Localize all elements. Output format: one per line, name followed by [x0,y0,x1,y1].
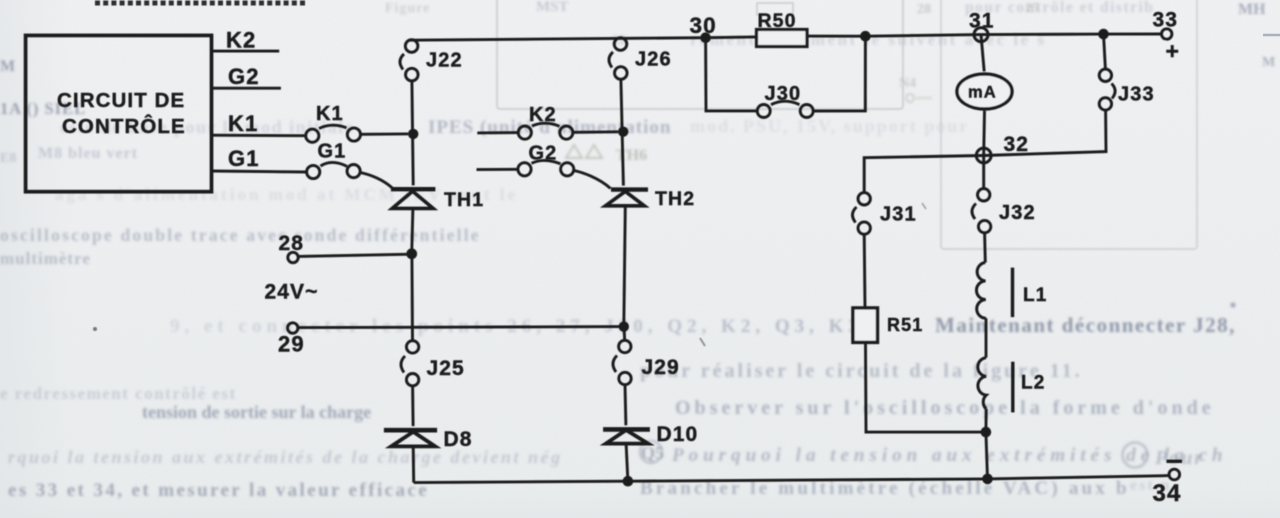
jumper J22 [400,40,418,81]
jumper J33 [1099,69,1115,110]
meter mA [957,74,1012,109]
svg-text:G1: G1 [318,141,347,163]
wire K1 row from box [212,134,306,137]
gate wire G2 to TH2 [574,171,611,189]
jumper J29 [613,340,631,384]
svg-text:J32: J32 [999,202,1036,224]
svg-text:mod. PSU, 15V, support pour: mod. PSU, 15V, support pour [690,116,969,136]
top rail right [807,34,1162,36]
svg-text:G2: G2 [228,64,260,89]
wire mA to 32 [982,111,986,156]
wire L2 down [986,409,988,479]
svg-text:33: 33 [1153,9,1179,32]
junction D10-bottom rail [623,476,634,487]
wire J32 to L1 [983,233,987,263]
junction R51-L2 [981,427,992,438]
svg-text:M: M [1262,55,1275,70]
diode D8 [384,430,437,446]
junction R50 right [860,31,871,42]
svg-text:G1: G1 [228,146,260,171]
junction L2-bottom rail [982,474,993,485]
jumper J30 [757,101,813,117]
svg-text:oscilloscope double trace avec: oscilloscope double trace avec sonde dif… [0,225,481,245]
svg-text:K1: K1 [316,103,344,125]
svg-text:J30: J30 [765,83,802,105]
wire J29 to D10 [624,385,628,426]
wire K2 row [477,131,518,134]
svg-text:28: 28 [279,232,305,255]
svg-text:J22: J22 [426,50,463,72]
junction K2-TH2 [618,127,628,137]
svg-text:J29: J29 [642,356,680,379]
wire D10 to bottom rail [626,444,628,482]
svg-text:CONTRÔLE: CONTRÔLE [62,114,186,138]
svg-text:MH: MH [1238,1,1266,18]
svg-text:rquoi la tension aux extrémité: rquoi la tension aux extrémités de la ch… [8,447,563,467]
svg-text:L2: L2 [1021,373,1045,394]
svg-text:J31: J31 [880,204,917,226]
scan speck above L2 [922,203,926,209]
svg-text:L1: L1 [1023,285,1047,306]
wire J25 to D8 [411,386,414,426]
svg-text:D8: D8 [444,428,473,451]
wire K2 to node [573,130,618,133]
jumper J31 [852,193,870,235]
bottom rail [414,476,1169,483]
svg-text:+: + [1166,38,1181,64]
wire J30 loop [706,38,758,111]
svg-text:24V~: 24V~ [265,281,319,304]
thyristor TH1 [391,189,435,208]
svg-text:Observer sur l'oscilloscope la: Observer sur l'oscilloscope la forme d'o… [675,397,1215,419]
wire R51 down and right [866,342,988,432]
wire J26 down to K2 node [621,79,624,185]
svg-text:MST: MST [536,0,569,15]
jumper J25 [401,341,419,386]
svg-text:K1: K1 [228,111,258,136]
svg-text:R51: R51 [887,315,923,335]
node 31 [974,28,988,42]
junction K1-TH1 [408,129,418,139]
svg-text:M: M [0,58,15,75]
switch K1 [306,125,361,142]
top rail left [409,37,757,40]
terminal 29 [288,323,298,333]
svg-text:31: 31 [969,10,995,33]
faint bleed rect A [497,0,903,109]
inductor L1 [976,263,1012,319]
terminal 34 [1169,469,1180,480]
terminal stub G2 [212,87,281,90]
faint bleed rect B [941,0,1197,249]
control box U1 CIRCUIT DE CONTROLE [26,35,212,191]
wire to J29 [622,327,626,341]
minus sign at 34 [1167,460,1183,463]
svg-text:CIRCUIT DE: CIRCUIT DE [57,89,185,112]
switch K2 [518,123,573,139]
svg-text:pour réaliser le circuit de la: pour réaliser le circuit de la figure 11… [640,360,1083,382]
wire L1 to L2 [985,318,988,358]
wire 32 right branch [984,110,1106,155]
junction node 28 [406,248,417,259]
wire 31 to mA [981,35,984,72]
junction node 30 [700,32,711,43]
svg-text:J26: J26 [635,49,672,71]
inductor L2 [978,358,1013,413]
wire TH2 to 29 junction [624,206,626,327]
svg-text:N4: N4 [899,76,916,91]
jumper J32 [972,189,991,233]
junction 29-TH2 [619,321,629,331]
terminal stub K2 [212,50,280,53]
terminal 33 [1162,29,1172,39]
gate wire G1 to TH1 [360,173,392,189]
svg-text:K2: K2 [529,104,557,126]
node 32 [976,148,991,163]
thyristor TH2 [606,190,649,206]
svg-text:34: 34 [1153,480,1182,507]
svg-text:mA: mA [968,84,997,102]
svg-text:J33: J33 [1118,84,1155,106]
faint bleed notch top center [757,3,793,16]
svg-text:Pourquoi la tension aux extrém: Pourquoi la tension aux extrémités de la… [671,445,1227,466]
svg-text:TH2: TH2 [655,188,695,210]
svg-text:30: 30 [690,13,717,38]
ghost text top row [0,0,1275,268]
terminal 28 [288,252,298,262]
wire J32 column [982,156,985,189]
junction J33-rail [1098,29,1109,40]
svg-text:e redressement contrôlé est: e redressement contrôlé est [0,384,237,403]
svg-text:multimètre: multimètre [0,249,91,268]
svg-text:TH6: TH6 [616,147,647,164]
wire 29 [298,327,624,328]
wire J31 to R51 [863,234,867,308]
svg-text:28: 28 [917,2,931,17]
svg-text:R50: R50 [758,10,797,32]
svg-text:G2: G2 [529,143,558,165]
wire 28 [298,254,406,256]
wire D8 to bottom rail [412,446,415,482]
diode D10 [603,429,650,443]
dotted cut-off text line top-left [95,1,305,6]
svg-text:Figure: Figure [385,1,430,16]
resistor R51 [853,308,878,343]
ghost redressement line [0,1,430,403]
wire G1 row from box [212,171,307,172]
svg-text:es 33 et 34, et mesurer la val: es 33 et 34, et mesurer la valeur effica… [8,480,429,501]
svg-text:TH1: TH1 [444,189,484,211]
svg-text:E8: E8 [0,151,16,166]
wire 32 left branch [864,156,984,193]
jumper J26 [609,38,627,80]
svg-text:D10: D10 [657,423,699,446]
wire G2 row [477,168,518,171]
svg-text:29: 29 [278,332,305,357]
resistor R50 [757,30,808,47]
svg-text:32: 32 [1004,133,1030,156]
wire 28junction down to J25 [410,254,414,341]
svg-text:K2: K2 [226,28,256,53]
ghost bottom band A [8,302,1236,501]
switch G2 [518,160,574,175]
wire J33 up to rail [1104,34,1106,69]
svg-text:tension de sortie sur la charg: tension de sortie sur la charge [142,402,371,422]
wire J30 loop right [813,36,865,111]
wire TH1 to 28 junction [412,208,413,253]
svg-text:J25: J25 [427,357,465,380]
scan speck near R51 top [700,338,705,346]
wire J22 down to K1 node [412,81,413,185]
switch G1 [307,162,361,178]
wire K1 to node [361,132,408,135]
scan speck near 29 [93,327,97,331]
svg-text:M8 bleu vert: M8 bleu vert [38,145,138,162]
